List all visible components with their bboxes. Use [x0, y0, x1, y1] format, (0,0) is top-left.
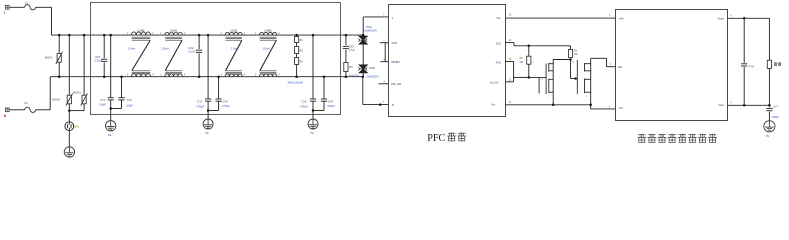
svg-text:EN: EN: [618, 65, 622, 69]
node MOV junction: [68, 109, 71, 112]
wire MOV1 to N bus: [58, 62, 60, 76]
svg-text:Vout+: Vout+: [718, 16, 725, 20]
wire EN step down: [606, 58, 608, 66]
wire N bus: [50, 76, 363, 78]
wire L node up: [362, 17, 364, 35]
node L bus / CX2: [198, 34, 201, 37]
node rail / Q4: [589, 104, 592, 107]
PFC module pin names: [391, 16, 501, 107]
wire R5 to gate node: [528, 64, 530, 77]
svg-text:4700pF: 4700pF: [327, 106, 335, 108]
wire TVS2 to N bus: [362, 73, 364, 77]
wire CY3-CY4 junction bar: [208, 110, 219, 112]
node L bus / MOV3: [83, 34, 86, 37]
svg-text:PE: PE: [310, 132, 314, 135]
wire CY4 down: [218, 101, 220, 110]
load resistor RL: [767, 60, 771, 68]
svg-text:100pF: 100pF: [126, 106, 133, 108]
PFC module U1 box: [389, 5, 506, 117]
svg-text:ACS: ACS: [496, 60, 502, 64]
wire L bus to CX1: [103, 35, 105, 58]
svg-text:4700pF: 4700pF: [771, 117, 779, 119]
capacitor C7 47uF: [741, 64, 747, 66]
wire junction to gas discharge tube NR1: [68, 111, 70, 122]
wire L bus to CY3: [207, 35, 209, 99]
common-mode choke LCM1: [127, 28, 154, 76]
svg-text:CX1: CX1: [95, 55, 101, 59]
node N bus / CY4: [217, 75, 220, 78]
svg-text:1.5MKE220V: 1.5MKE220V: [363, 31, 377, 33]
svg-text:-Vin: -Vin: [618, 106, 623, 110]
wire down to C7: [743, 18, 745, 63]
wire L input to fuse F1: [10, 6, 25, 8]
wire to PFC pin 1 L: [363, 16, 389, 18]
wire CY6 down: [323, 101, 325, 110]
node L bus / CY3: [207, 34, 210, 37]
svg-text:100pF: 100pF: [99, 105, 106, 107]
svg-text:G: G: [541, 79, 543, 81]
capacitor CY2 100pF: [118, 98, 124, 100]
wire CY5-CY6 junction bar: [313, 110, 324, 112]
wire L bus to CX3: [345, 35, 347, 45]
wire Q1 drain to R6 bottom: [553, 59, 570, 61]
wire CX2 to N bus: [198, 54, 200, 77]
wire rail jog down: [590, 105, 592, 109]
node CY5/CY6 junction: [312, 109, 315, 112]
isolation module pin names: [618, 16, 724, 110]
node L bus / CY5: [312, 34, 315, 37]
wire PFC Vo- rail: [506, 104, 591, 106]
wire top to R6: [570, 46, 572, 50]
differential choke LDM1: [160, 28, 186, 76]
node N bus / R3: [295, 75, 298, 78]
node R5 bottom / gate feed: [528, 76, 531, 79]
node Vout- / CY7: [768, 104, 771, 107]
connector J2 line input N: [5, 108, 10, 113]
svg-text:CY1: CY1: [100, 99, 105, 102]
fuse F2: [25, 107, 36, 112]
svg-text:+Vin: +Vin: [618, 16, 624, 20]
wire load to Vout- line: [768, 68, 770, 105]
node L bus end / TVS1: [362, 34, 365, 37]
svg-text:PG: PG: [766, 135, 770, 138]
protective earth ground PE1: [106, 121, 116, 131]
wire Q1 Q2 drain-source chain: [552, 60, 554, 105]
wire Vout+ line: [728, 17, 770, 19]
wire CY5 to PE junction: [312, 101, 314, 110]
wire L bus: [52, 34, 364, 36]
svg-text:TVS1: TVS1: [366, 26, 373, 29]
wire gate feed to Q1 Q2 gates: [529, 76, 546, 78]
fuse F1: [25, 5, 36, 10]
wire TVS1 to TVS2: [362, 44, 364, 65]
wire L bus down to MOV3: [83, 35, 85, 95]
wire R3 to N bus: [296, 65, 298, 77]
node PFC pin 5 junction: [379, 103, 382, 106]
wire L bus down to MOV2: [68, 35, 70, 95]
node L bus / CY1: [109, 34, 112, 37]
wire N node down: [362, 77, 364, 105]
wire ACS to LS_GS vertical: [513, 62, 515, 82]
wire down to L bus: [51, 7, 53, 35]
svg-text:Vout-: Vout-: [718, 103, 724, 107]
wire N bus to CY2: [121, 77, 123, 98]
svg-text:MOV3: MOV3: [73, 90, 81, 94]
svg-text:PFC_EN: PFC_EN: [391, 83, 401, 86]
wire R6 bottom down: [570, 60, 572, 79]
node N bus / CX2: [198, 75, 201, 78]
svg-text:200K(120mW): 200K(120mW): [287, 82, 303, 85]
wire MOV2 to junction: [68, 104, 70, 111]
label PFC module (Chinese): [427, 132, 466, 144]
wire N input to fuse F2: [10, 109, 25, 111]
wire CX3 to R4: [345, 50, 347, 63]
svg-text:LCM2: LCM2: [230, 28, 238, 32]
resistor R4: [344, 63, 348, 72]
svg-text:LDM1: LDM1: [170, 28, 178, 32]
svg-text:200K(1W): 200K(1W): [349, 75, 359, 77]
varistor MOV2: [66, 93, 73, 105]
wire NR1 to protective earth: [68, 131, 70, 147]
wire R1 to R2: [296, 43, 298, 47]
svg-text:CY4: CY4: [223, 100, 228, 103]
svg-text:CY6: CY6: [328, 100, 333, 103]
wire Vout- line: [728, 104, 770, 106]
node Vout+ / C7: [743, 17, 746, 20]
resistor R2: [295, 47, 299, 54]
svg-text:0.7uF: 0.7uF: [349, 50, 355, 52]
wire F1 to corner: [36, 6, 52, 8]
wire up to N bus: [49, 77, 51, 110]
wire SCS step down: [513, 43, 515, 46]
wire CY3 to PE junction: [207, 101, 209, 110]
wire CY7 to ground: [768, 112, 770, 121]
wire joining PFC pins 2 and 3: [384, 43, 386, 62]
svg-text:G: G: [573, 62, 575, 64]
svg-text:CX2: CX2: [188, 46, 194, 50]
wire Q3 drain to EN step: [591, 57, 607, 59]
svg-text:LDM2: LDM2: [265, 28, 273, 32]
wire PFC LS_GS stub: [506, 81, 514, 83]
wire gate feed left segment: [514, 76, 529, 78]
svg-text:CY3: CY3: [197, 100, 202, 103]
capacitor CY4 4700pF: [216, 99, 222, 101]
svg-text:120uH: 120uH: [262, 48, 270, 51]
node Vout- / C7: [743, 104, 746, 107]
connector J1 line input L: [5, 5, 10, 10]
svg-text:NR1: NR1: [74, 126, 80, 129]
svg-text:4700pF: 4700pF: [196, 107, 204, 109]
wire PFC pin 3 stub: [380, 61, 388, 63]
node R6 bottom: [569, 58, 572, 61]
protective ground PG (output): [764, 121, 775, 132]
svg-text:Vo-: Vo-: [491, 103, 495, 107]
protective earth ground (input): [64, 147, 74, 157]
wire PFC pin 4 stub: [379, 83, 389, 85]
capacitor CX2 0.33uF: [196, 50, 202, 52]
wire F2 to corner: [36, 109, 51, 111]
wire to PE ground 1: [110, 109, 112, 121]
svg-text:PFC: PFC: [427, 133, 445, 144]
varistor MOV1: [56, 52, 63, 64]
node right gate feed: [574, 77, 577, 80]
MOSFET pair Q1 Q2 (left): [546, 63, 553, 94]
wire L bus to CY1: [110, 35, 112, 98]
wire to Q3 Q4 gate bar: [571, 78, 578, 80]
svg-text:120uH: 120uH: [161, 48, 169, 51]
protective earth ground PE3: [308, 119, 318, 129]
capacitor CX1 0.33uF: [101, 59, 107, 61]
capacitor CY3 4700pF: [205, 99, 211, 101]
wire MOV3 to junction: [83, 104, 85, 111]
svg-text:MOV1: MOV1: [45, 56, 53, 60]
resistor R3: [295, 58, 299, 65]
label load (Chinese): [774, 62, 777, 65]
resistor R5 20k: [527, 56, 531, 64]
wire PFC ACS stub: [506, 61, 514, 63]
svg-text:N: N: [392, 103, 394, 107]
EMI filter module box: [91, 3, 341, 115]
node rail / Q2: [552, 104, 555, 107]
resistor R6 20k: [568, 50, 572, 58]
svg-text:ACN: ACN: [391, 41, 397, 45]
capacitor CX3 0.7uF: [343, 46, 349, 48]
wire Q3 Q4 drain-source chain: [590, 58, 592, 105]
differential choke LDM2: [255, 28, 281, 76]
node N bus / MOV1: [58, 75, 61, 78]
wire SCS node horizontal: [514, 45, 571, 47]
resistor R1: [295, 37, 299, 43]
node L bus / CX3: [345, 34, 348, 37]
node N bus / TVS2: [362, 75, 365, 78]
svg-text:LCM1: LCM1: [137, 28, 145, 32]
svg-text:CX3: CX3: [349, 45, 354, 48]
svg-text:SCS: SCS: [496, 42, 502, 46]
wire CY2 down: [121, 100, 123, 109]
capacitor CY7 4700pF: [766, 109, 772, 111]
high-voltage isolation module box: [616, 10, 728, 121]
MOSFET pair Q3 Q4 (right): [577, 60, 590, 94]
wire to isolation -Vin pin: [591, 108, 615, 110]
node L bus / MOV1: [58, 34, 61, 37]
node N bus / CY6: [323, 75, 326, 78]
capacitor CY5 4700pF: [310, 99, 316, 101]
svg-text:TVS2: TVS2: [369, 67, 376, 70]
wire MOV2-MOV3 junction bar: [69, 110, 84, 112]
varistor MOV3: [81, 93, 88, 105]
node N bus / R4: [345, 75, 348, 78]
svg-text:Vo+: Vo+: [496, 16, 501, 20]
svg-text:1.5mH: 1.5mH: [128, 48, 136, 51]
label high-voltage isolation module power supply (Chinese): [637, 134, 717, 143]
svg-text:CY7: CY7: [773, 105, 778, 108]
wire to PFC pin 5 N: [363, 104, 389, 106]
svg-text:CY5: CY5: [302, 100, 307, 103]
wire to R5: [528, 46, 530, 56]
node R5 top: [528, 45, 531, 48]
wire gate spur down: [538, 77, 540, 93]
TVS diode TVS1 1.5MKE220V: [358, 36, 367, 44]
wire Vout+ to load: [768, 18, 770, 60]
protective earth ground PE2: [203, 119, 213, 129]
svg-text:CY2: CY2: [127, 99, 132, 102]
wire L bus to R1: [296, 35, 298, 36]
node CY3/CY4 junction: [207, 109, 210, 112]
wire N bus to CY6: [323, 77, 325, 99]
svg-text:4700pF: 4700pF: [300, 107, 308, 109]
svg-text:L: L: [4, 10, 6, 14]
wire to PE ground 2: [207, 111, 209, 120]
wire L bus to CX2: [198, 35, 200, 49]
node CY1/CY2 junction: [109, 107, 112, 110]
node L bus / CX1: [103, 34, 106, 37]
wire L bus to TVS1: [362, 34, 364, 37]
wire PFC Vo+ to +Vin: [506, 17, 615, 19]
svg-text:PE: PE: [205, 132, 209, 135]
svg-text:4700pF: 4700pF: [222, 106, 230, 108]
wire R2 to R3: [296, 54, 298, 58]
wire L bus to CY5: [312, 35, 314, 99]
node N bus / CY2: [120, 75, 123, 78]
wire PFC pin 2 stub: [380, 42, 389, 44]
common-mode choke LCM2: [221, 28, 246, 76]
wire to isolation EN pin: [607, 66, 616, 68]
wire CY1 to PE junction: [110, 100, 112, 109]
wire CX1 to N bus: [103, 63, 105, 77]
capacitor CY1 100pF: [108, 98, 114, 100]
wire R4 to N bus: [345, 72, 347, 77]
svg-text:47uF: 47uF: [749, 66, 755, 68]
svg-text:0.33uF: 0.33uF: [188, 51, 196, 54]
wire CY1-CY2 junction bar: [111, 108, 122, 110]
node N bus / CX1: [103, 75, 106, 78]
TVS diode TVS2 1.5MKE220V: [358, 65, 367, 73]
wire to PE ground 3: [312, 111, 314, 120]
wire C7 to Vout- line: [743, 67, 745, 105]
svg-text:MOV2: MOV2: [52, 97, 60, 101]
svg-text:1.5MKE220V: 1.5MKE220V: [365, 76, 379, 78]
wire PFC SCS stub: [506, 42, 514, 44]
wire L bus to MOV1: [58, 35, 60, 53]
wire to CY7: [768, 105, 770, 107]
node L bus / MOV2: [68, 34, 71, 37]
svg-text:PE: PE: [108, 134, 112, 137]
svg-text:INHIBIT: INHIBIT: [391, 61, 400, 64]
node L bus / R1: [295, 34, 298, 37]
wire N bus to CY4: [218, 77, 220, 99]
capacitor CY6 4700pF: [321, 99, 327, 101]
gas discharge tube NR1: [65, 122, 74, 131]
svg-text:1.5mH: 1.5mH: [231, 48, 239, 51]
svg-text:LS_GS: LS_GS: [490, 82, 498, 85]
svg-text:0.33uF: 0.33uF: [95, 60, 103, 63]
